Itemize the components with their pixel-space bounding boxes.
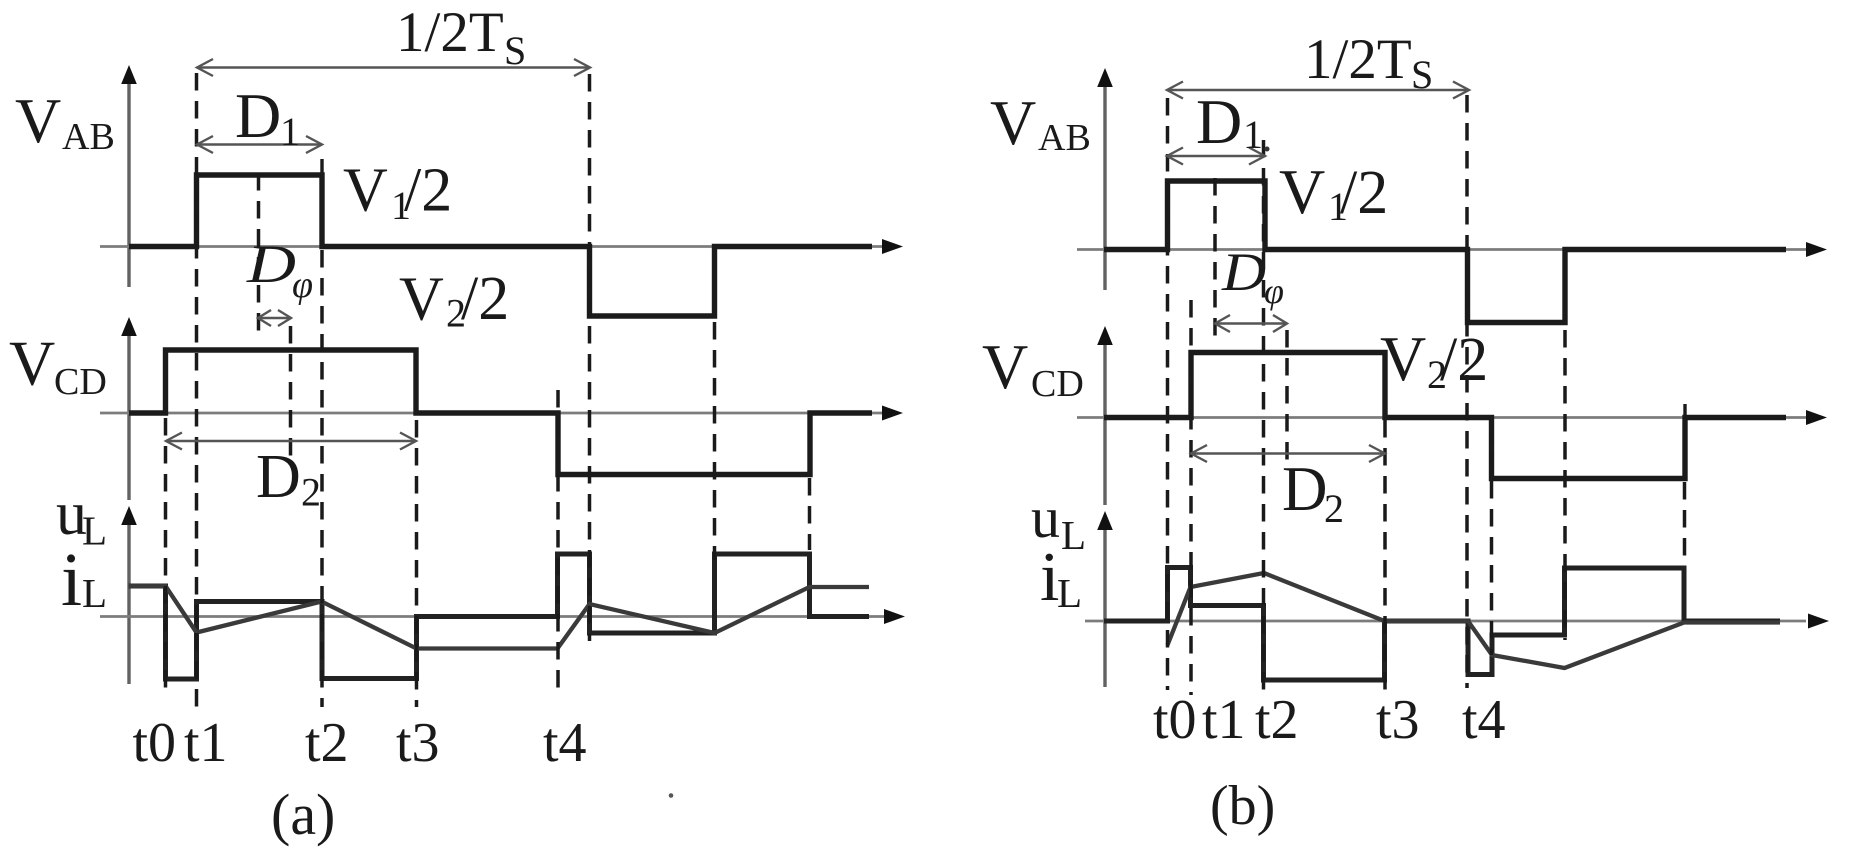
svg-text:D: D [256,443,301,511]
dashed line D_phi left / V_AB pulse centre (b) [1213,178,1217,336]
waveform V_AB (b) [1104,181,1786,323]
svg-text:V: V [399,266,444,334]
axis V_CD horizontal zero line (b) [1077,410,1827,425]
svg-text:t4: t4 [543,712,587,774]
svg-text:t2: t2 [1255,689,1299,751]
svg-text:D: D [1221,242,1266,302]
svg-text:CD: CD [54,361,107,403]
axis V_CD vertical (b) [1097,326,1113,505]
svg-text:V: V [343,157,388,225]
label D_phi (b) [1221,242,1284,311]
svg-text:t4: t4 [1462,689,1506,751]
svg-text:1/2T: 1/2T [396,1,504,64]
svg-text:/2: /2 [1440,326,1488,394]
dashed line D_phi right / V_CD pulse centre (a) [289,326,293,463]
svg-text:V: V [982,331,1028,402]
label D1 (b) [1196,86,1270,157]
svg-text:/2: /2 [404,157,452,225]
axis V_AB vertical (b) [1097,68,1113,290]
dashed line t2 (a) [320,250,324,707]
svg-text:D: D [1282,454,1328,524]
axis u_L horizontal zero line (b) [1085,614,1829,629]
dimension arrow D2 (b) [1191,445,1385,462]
dashed line t0 (b) [1166,98,1170,690]
dashed line V_AB negative end (b) [1563,330,1567,640]
label V_AB (a) [15,85,115,158]
label V2/2 (a) [399,265,509,336]
label D1 (a) [235,80,300,154]
axis V_AB horizontal zero line (a) [100,239,903,254]
stray dot artefact [669,793,674,798]
label u_L (b) [1031,485,1086,558]
svg-text:t0: t0 [1153,689,1197,751]
label 1/2Ts (a) [396,1,526,73]
label D_phi (a) [246,234,313,306]
axis u_L horizontal zero line (a) [100,609,905,624]
dimension arrow D_phi (a) [258,310,291,326]
waveform u_L (a) [129,554,870,679]
svg-text:2: 2 [1324,486,1344,531]
svg-text:i: i [61,538,82,622]
svg-text:t1: t1 [1202,689,1246,751]
label V1/2 (b) [1279,156,1388,229]
svg-text:t0: t0 [133,712,177,774]
svg-text:(a): (a) [271,782,335,847]
svg-text:1: 1 [280,109,300,154]
svg-text:S: S [1411,52,1433,97]
label V2/2 (b) [1380,323,1488,397]
axis u_L vertical (b) [1097,511,1113,687]
dashed line half-Ts end (a) [588,74,592,641]
axis V_CD horizontal zero line (a) [100,406,903,421]
svg-text:L: L [82,570,107,616]
svg-text:D: D [235,80,281,151]
spur above t2 corner (a) [320,159,323,175]
label i_L (b) [1040,539,1082,616]
label D2 (a) [256,443,321,515]
dashed line t3 (b) [1383,420,1387,695]
svg-text:D: D [1196,86,1242,157]
label V1/2 (a) [343,157,452,229]
svg-text:V: V [1380,323,1426,394]
svg-text:V: V [15,85,61,156]
label i_L (a) [61,538,107,622]
svg-text:AB: AB [62,116,115,158]
svg-text:t3: t3 [396,712,440,774]
label u_L (a) [56,480,107,554]
svg-text:V: V [990,87,1036,158]
dimension arrow 1/2Ts (a) [197,59,590,76]
svg-text:CD: CD [1031,363,1084,405]
dimension arrow D2 (a) [166,433,416,450]
dashed line D_phi right / V_CD pulse centre (b) [1285,330,1289,465]
svg-text:t3: t3 [1376,689,1420,751]
axis V_CD vertical (a) [121,317,137,500]
svg-text:t1: t1 [184,712,228,774]
label V_CD (b) [982,331,1084,405]
dashed line t1 (a) [195,73,199,707]
svg-text:/2: /2 [461,265,509,333]
waveform V_CD (b) [1683,404,1686,418]
dashed line t2 (b) [1262,140,1266,695]
dimension arrow D1 (b) [1167,148,1265,165]
dashed line D_phi left / V_AB pulse centre (a) [257,173,261,331]
svg-text:L: L [82,508,107,554]
dashed line t4 (a) [556,390,560,688]
dimension arrow D_phi (b) [1215,315,1287,332]
axis V_AB vertical (a) [121,65,137,287]
svg-text:2: 2 [301,470,321,515]
dashed line V_AB negative end (a) [713,322,717,560]
label V_CD (a) [9,328,107,404]
waveform u_L (b) [1104,568,1780,681]
dashed line t0 (a) [164,418,168,688]
axis u_L vertical (a) [121,506,137,684]
svg-text:(b): (b) [1210,775,1275,837]
svg-text:t2: t2 [305,712,349,774]
svg-text:φ: φ [292,264,313,306]
svg-text:V: V [9,328,55,399]
waveform V_CD (a) [129,350,872,475]
label V_AB (b) [990,87,1091,159]
svg-text:L: L [1057,570,1082,616]
dimension arrow 1/2Ts (b) [1167,82,1469,99]
svg-text:1/2T: 1/2T [1304,28,1412,91]
dashed line V_CD negative end (a) [808,478,812,550]
waveform i_L (a) [129,586,870,649]
dashed line t3 (a) [415,420,419,707]
svg-text:AB: AB [1038,117,1091,159]
dashed line V_CD negative start (b) [1490,425,1494,655]
svg-text:L: L [1061,512,1086,558]
waveform i_L (b) [1168,573,1781,668]
dashed line half-Ts end / t4 (b) [1465,95,1469,688]
svg-text:V: V [1279,156,1325,227]
svg-text:D: D [246,234,296,294]
dashed line t1 (b) [1189,300,1193,695]
svg-text:S: S [504,28,526,73]
label D2 (b) [1282,454,1344,531]
svg-text:1: 1 [1243,112,1263,157]
dimension arrow D1 (a) [197,136,322,153]
label 1/2Ts (b) [1304,28,1433,97]
axis V_AB horizontal zero line (b) [1077,242,1827,257]
svg-text:/2: /2 [1340,159,1388,227]
svg-text:φ: φ [1264,271,1284,311]
waveform V_AB (a) [129,175,872,316]
dashed line V_CD negative end (b) [1683,482,1687,556]
